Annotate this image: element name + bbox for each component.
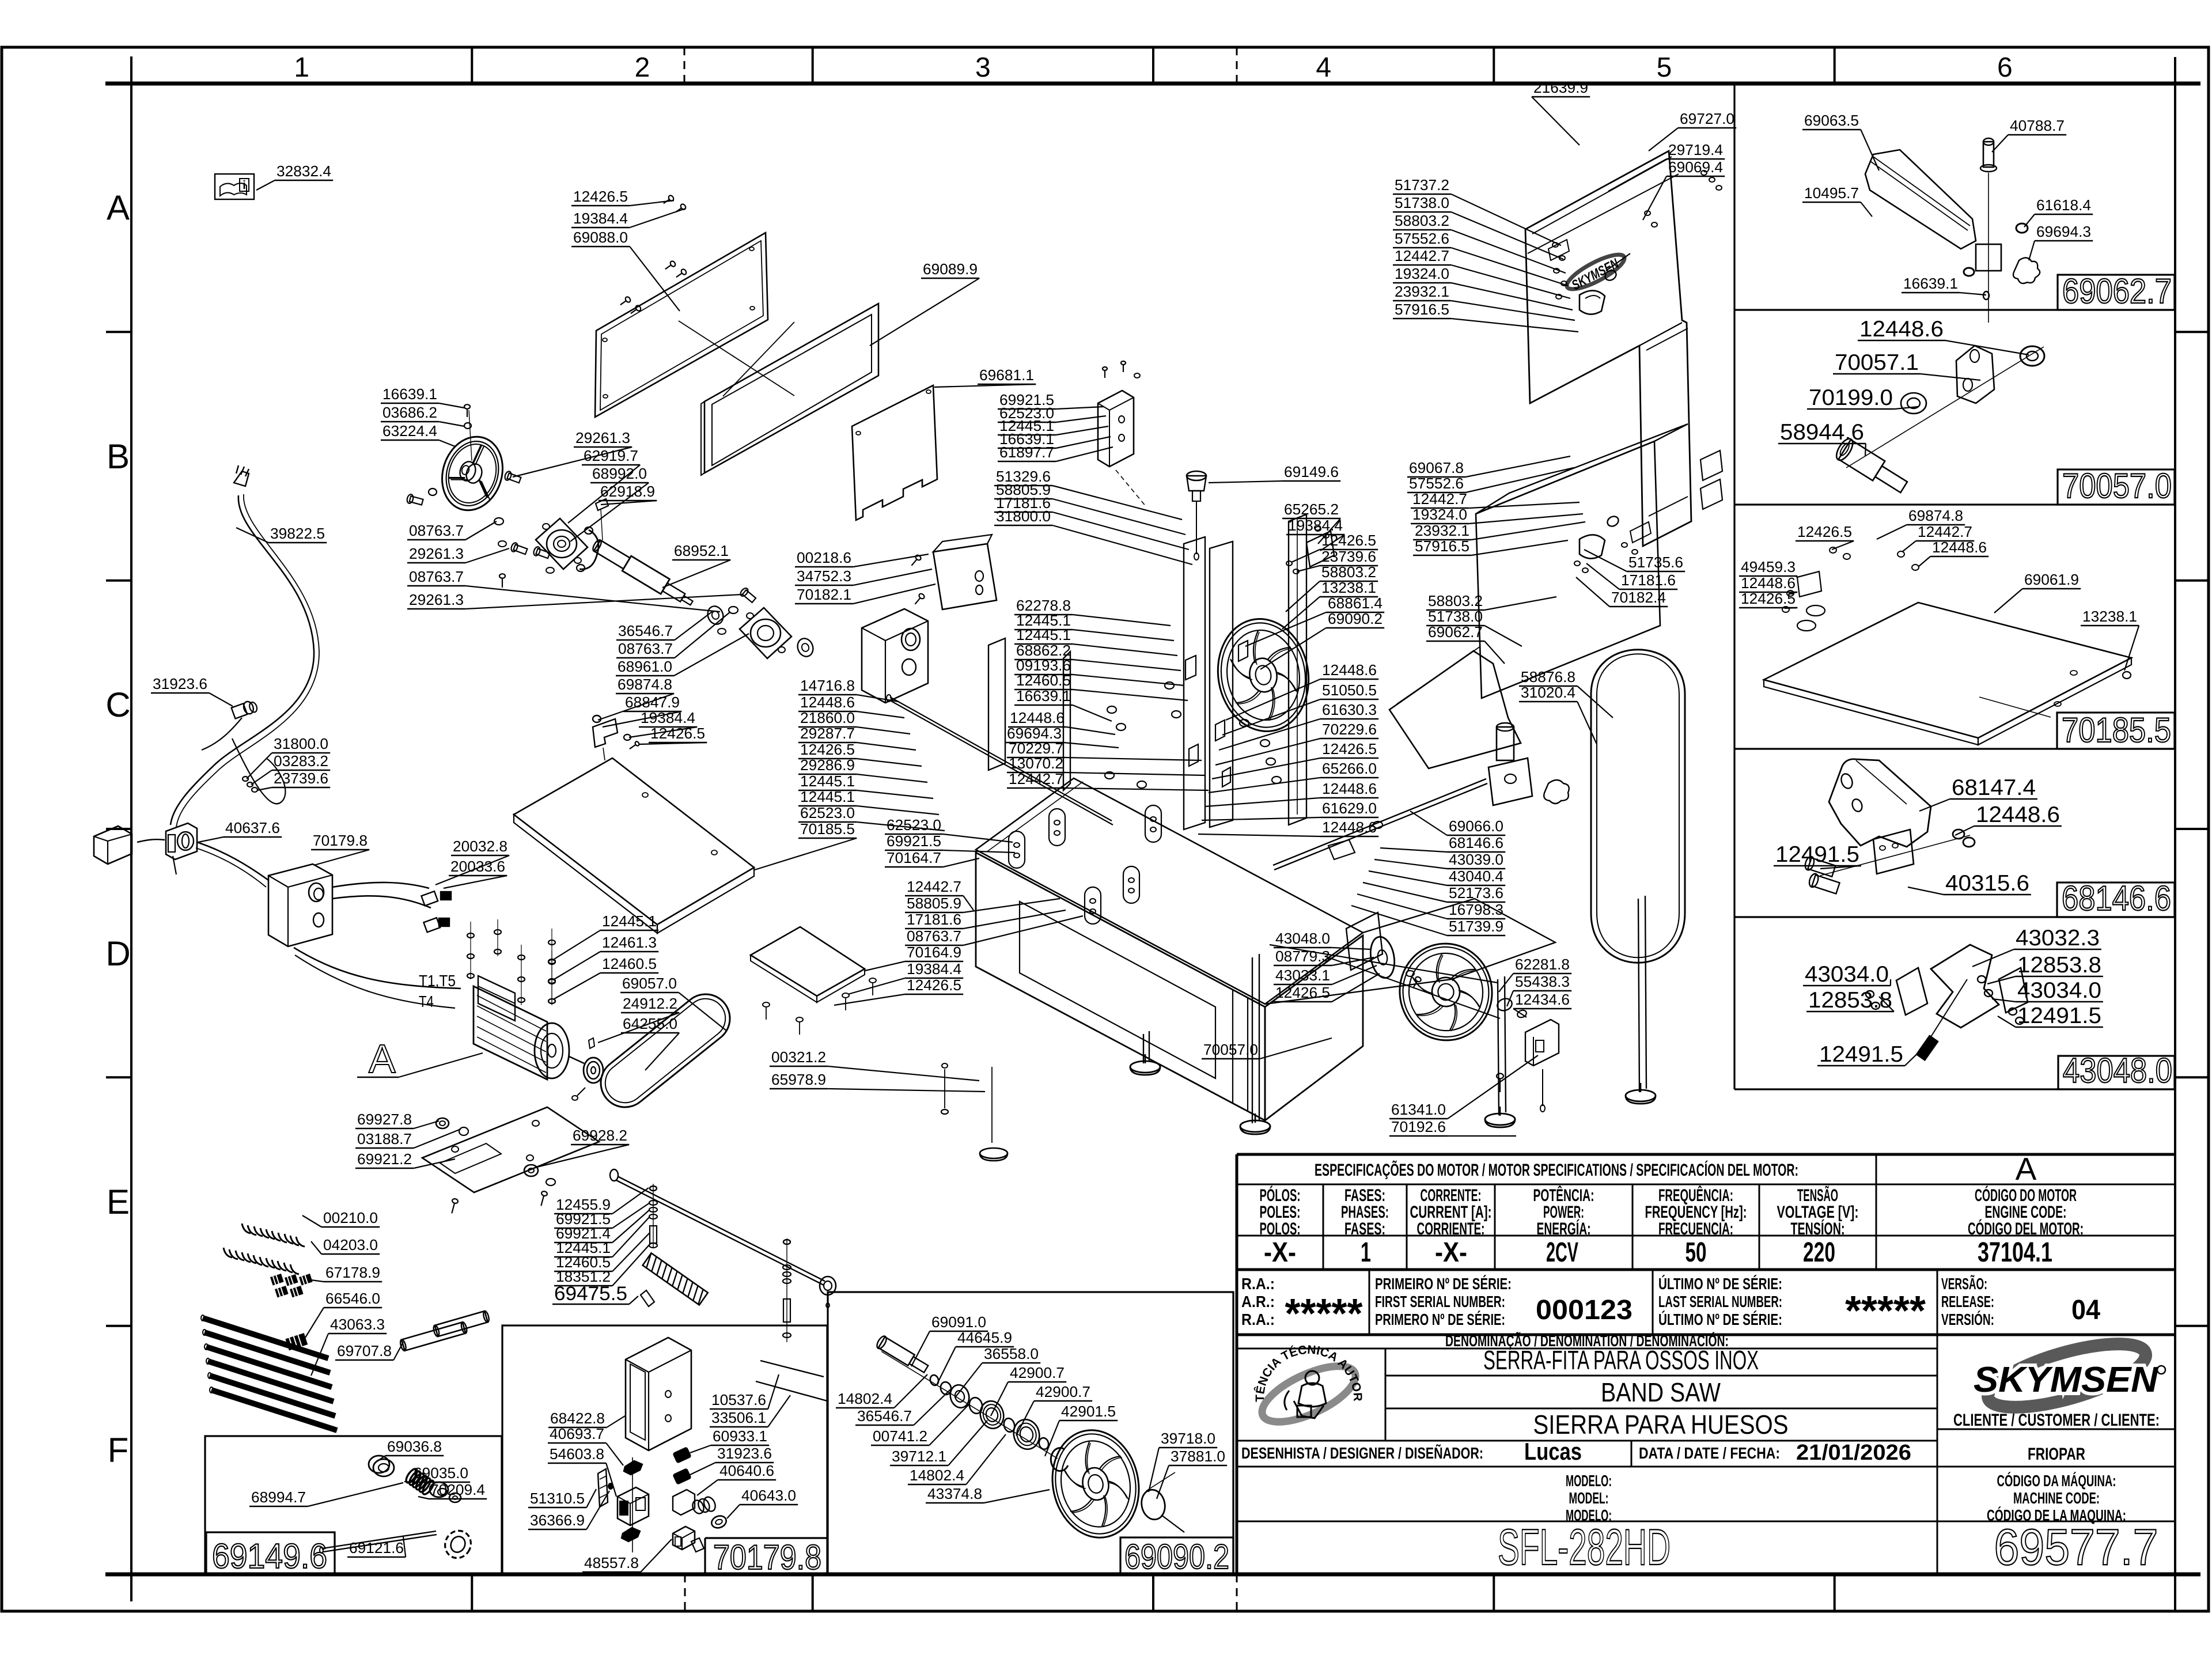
svg-text:12442.7: 12442.7 [1918,523,1972,540]
svg-text:4: 4 [1316,52,1331,83]
svg-text:70199.0: 70199.0 [1809,385,1893,410]
svg-text:51738.0: 51738.0 [1395,194,1449,211]
svg-text:69057.0: 69057.0 [622,975,677,992]
svg-text:-X-: -X- [1264,1237,1296,1268]
svg-text:21/01/2026: 21/01/2026 [1796,1441,1911,1465]
svg-text:MACHINE CODE:: MACHINE CODE: [2013,1489,2100,1507]
svg-text:12426.5: 12426.5 [1275,984,1330,1001]
svg-text:VERSÃO:: VERSÃO: [1941,1275,1987,1293]
svg-text:POTÊNCIA:: POTÊNCIA: [1533,1185,1594,1205]
svg-text:39718.0: 39718.0 [1161,1430,1215,1447]
svg-text:69089.9: 69089.9 [923,260,978,278]
svg-text:61341.0: 61341.0 [1391,1101,1446,1118]
svg-text:F: F [108,1431,129,1469]
svg-text:51310.5: 51310.5 [530,1490,585,1507]
svg-text:12461.3: 12461.3 [602,934,657,951]
svg-text:58805.9: 58805.9 [907,895,961,912]
svg-text:29286.9: 29286.9 [800,756,855,774]
svg-text:42900.7: 42900.7 [1036,1383,1090,1400]
svg-text:69921.5: 69921.5 [887,832,941,850]
svg-text:70185.5: 70185.5 [2062,711,2171,749]
svg-text:A: A [107,188,130,227]
svg-text:58876.8: 58876.8 [1521,668,1575,685]
svg-text:63224.4: 63224.4 [382,422,437,440]
svg-text:SFL-282HD: SFL-282HD [1498,1518,1671,1575]
svg-text:12448.6: 12448.6 [1932,539,1987,556]
svg-text:40693.7: 40693.7 [550,1425,604,1442]
svg-text:3: 3 [975,52,991,83]
svg-text:31800.0: 31800.0 [996,507,1051,525]
svg-text:12448.6: 12448.6 [1976,802,2060,827]
svg-text:68146.6: 68146.6 [1449,834,1503,851]
svg-text:37104.1: 37104.1 [1978,1237,2052,1268]
svg-text:65978.9: 65978.9 [771,1071,826,1088]
svg-text:69061.9: 69061.9 [2024,571,2079,588]
svg-text:CLIENTE / CUSTOMER / CLIENTE:: CLIENTE / CUSTOMER / CLIENTE: [1953,1411,2160,1430]
svg-text:61629.0: 61629.0 [1322,800,1377,817]
svg-text:40643.0: 40643.0 [741,1487,796,1504]
svg-text:SERRA-FITA PARA OSSOS INOX: SERRA-FITA PARA OSSOS INOX [1483,1345,1759,1375]
svg-text:70192.6: 70192.6 [1391,1118,1446,1135]
svg-text:12853.8: 12853.8 [1808,988,1892,1013]
svg-text:43048.0: 43048.0 [1275,930,1330,947]
svg-text:70179.8: 70179.8 [713,1538,821,1577]
svg-text:*****: ***** [1845,1288,1926,1334]
svg-text:29287.7: 29287.7 [800,725,855,742]
svg-text:23739.6: 23739.6 [1321,548,1376,565]
svg-text:1: 1 [294,52,309,83]
svg-text:40788.7: 40788.7 [2010,117,2065,134]
svg-text:04203.0: 04203.0 [323,1236,378,1253]
svg-text:36546.7: 36546.7 [618,622,673,639]
svg-text:FRIOPAR: FRIOPAR [2028,1445,2085,1464]
svg-text:48557.8: 48557.8 [584,1554,639,1571]
svg-text:08763.7: 08763.7 [409,522,464,539]
svg-text:19384.4: 19384.4 [573,210,628,227]
svg-text:57552.6: 57552.6 [1395,230,1449,247]
svg-text:32832.4: 32832.4 [276,162,331,180]
svg-text:55438.3: 55438.3 [1515,973,1570,990]
svg-text:14716.8: 14716.8 [800,677,855,694]
svg-text:39712.1: 39712.1 [892,1448,946,1465]
svg-text:70057.0: 70057.0 [1203,1041,1258,1058]
svg-text:62523.0: 62523.0 [887,816,941,834]
svg-text:B: B [107,437,130,476]
svg-text:20033.6: 20033.6 [450,858,505,875]
svg-text:43040.4: 43040.4 [1449,868,1503,885]
svg-text:14802.4: 14802.4 [910,1467,964,1484]
svg-text:31923.6: 31923.6 [153,675,207,692]
svg-text:000123: 000123 [1536,1295,1633,1325]
svg-text:40315.6: 40315.6 [1945,871,2029,896]
svg-text:16639.1: 16639.1 [1016,687,1071,704]
svg-text:1: 1 [1361,1237,1371,1268]
svg-text:12442.7: 12442.7 [907,878,961,895]
svg-text:23932.1: 23932.1 [1415,522,1469,539]
svg-text:69874.8: 69874.8 [1908,507,1963,524]
svg-text:69475.5: 69475.5 [554,1283,627,1305]
svg-text:00210.0: 00210.0 [323,1209,378,1226]
svg-text:68422.8: 68422.8 [550,1410,605,1427]
svg-text:12448.6: 12448.6 [1741,574,1796,592]
svg-text:08763.7: 08763.7 [907,927,961,945]
svg-text:08779.3: 08779.3 [1275,948,1330,965]
svg-text:10537.6: 10537.6 [711,1391,766,1408]
svg-text:33506.1: 33506.1 [711,1409,766,1426]
svg-text:51737.2: 51737.2 [1395,176,1449,194]
svg-text:69874.8: 69874.8 [618,676,672,693]
svg-text:69681.1: 69681.1 [979,366,1034,384]
svg-text:62919.7: 62919.7 [584,447,638,464]
svg-text:VERSIÓN:: VERSIÓN: [1941,1310,1994,1328]
svg-text:29261.3: 29261.3 [409,591,464,608]
svg-text:FREQUÊNCIA:: FREQUÊNCIA: [1658,1185,1733,1205]
svg-text:PÓLOS:: PÓLOS: [1260,1185,1301,1205]
svg-text:70057.0: 70057.0 [2062,467,2172,505]
svg-text:61618.4: 61618.4 [2036,196,2091,214]
svg-text:31923.6: 31923.6 [717,1445,772,1462]
svg-text:69707.8: 69707.8 [337,1342,392,1359]
svg-text:68861.4: 68861.4 [1328,594,1382,612]
svg-text:DATA / DATE / FECHA:: DATA / DATE / FECHA: [1639,1444,1780,1462]
svg-text:43034.0: 43034.0 [2017,978,2101,1003]
svg-text:ÚLTIMO Nº DE SÉRIE:: ÚLTIMO Nº DE SÉRIE: [1658,1310,1782,1328]
svg-text:*****: ***** [1285,1291,1363,1337]
svg-text:LAST SERIAL NUMBER:: LAST SERIAL NUMBER: [1658,1293,1782,1310]
svg-text:69121.6: 69121.6 [349,1539,404,1556]
svg-text:69577.7: 69577.7 [1994,1518,2158,1575]
svg-text:67178.9: 67178.9 [325,1264,380,1281]
svg-text:03283.2: 03283.2 [274,752,328,770]
svg-text:12445.1: 12445.1 [1016,626,1071,643]
svg-text:12491.5: 12491.5 [1775,842,1859,867]
svg-text:12426.5: 12426.5 [1797,523,1852,540]
svg-text:12448.6: 12448.6 [800,694,855,711]
svg-text:CÓDIGO DEL MOTOR:: CÓDIGO DEL MOTOR: [1968,1219,2084,1238]
svg-text:08763.7: 08763.7 [409,568,464,585]
svg-text:69727.0: 69727.0 [1680,110,1734,127]
svg-text:DESENHISTA / DESIGNER / DISEÑA: DESENHISTA / DESIGNER / DISEÑADOR: [1241,1444,1483,1462]
svg-text:54603.8: 54603.8 [550,1445,604,1463]
svg-text:12445.1: 12445.1 [800,772,855,790]
svg-text:58803.2: 58803.2 [1321,563,1376,581]
svg-text:49459.3: 49459.3 [1741,558,1796,575]
svg-text:ESPECIFICAÇÕES DO MOTOR / MOTO: ESPECIFICAÇÕES DO MOTOR / MOTOR SPECIFIC… [1315,1160,1798,1180]
svg-text:61630.3: 61630.3 [1322,701,1377,718]
svg-text:20032.8: 20032.8 [453,838,507,855]
svg-text:57552.6: 57552.6 [1409,475,1464,492]
svg-text:69694.3: 69694.3 [2036,223,2091,240]
svg-text:00741.2: 00741.2 [873,1427,927,1445]
svg-text:68994.7: 68994.7 [251,1488,306,1506]
svg-text:12460.5: 12460.5 [1016,672,1071,689]
svg-text:70179.8: 70179.8 [313,832,368,849]
svg-text:CORRIENTE:: CORRIENTE: [1417,1219,1485,1238]
svg-text:12442.7: 12442.7 [1395,247,1449,264]
svg-text:70182.4: 70182.4 [1611,589,1666,606]
svg-text:12491.5: 12491.5 [1819,1042,1903,1067]
svg-text:12448.6: 12448.6 [1322,661,1377,679]
svg-text:69928.2: 69928.2 [573,1127,627,1144]
svg-text:i: i [243,179,246,192]
svg-text:29261.3: 29261.3 [575,429,630,446]
svg-text:RELEASE:: RELEASE: [1941,1293,1994,1310]
svg-text:D: D [105,934,130,973]
svg-text:37881.0: 37881.0 [1171,1448,1225,1465]
svg-text:08763.7: 08763.7 [618,640,673,657]
svg-text:5: 5 [1657,52,1672,83]
svg-text:43374.8: 43374.8 [927,1485,982,1502]
svg-text:12434.6: 12434.6 [1515,991,1570,1008]
svg-text:17181.6: 17181.6 [1621,571,1676,589]
svg-text:12426.5: 12426.5 [907,976,961,994]
svg-text:SKYMSEN: SKYMSEN [1974,1360,2158,1400]
svg-text:FASES:: FASES: [1344,1219,1385,1238]
svg-text:10495.7: 10495.7 [1804,184,1859,202]
svg-text:ENERGÍA:: ENERGÍA: [1537,1219,1591,1238]
svg-text:ÚLTIMO Nº DE SÉRIE:: ÚLTIMO Nº DE SÉRIE: [1658,1275,1782,1293]
svg-text:36366.9: 36366.9 [530,1512,585,1529]
svg-text:69088.0: 69088.0 [573,229,628,246]
svg-text:69066.0: 69066.0 [1449,817,1503,835]
svg-text:21639.9: 21639.9 [1533,79,1588,96]
svg-text:13070.2: 13070.2 [1009,755,1063,772]
svg-text:FRECUENCIA:: FRECUENCIA: [1658,1219,1733,1238]
svg-text:69062.7: 69062.7 [2062,272,2172,310]
svg-text:69067.8: 69067.8 [1409,459,1464,476]
svg-text:31020.4: 31020.4 [1521,684,1575,701]
svg-text:70185.5: 70185.5 [800,820,855,838]
svg-text:43063.3: 43063.3 [330,1316,385,1333]
svg-text:12426.5: 12426.5 [650,725,705,742]
svg-text:12426.5: 12426.5 [1322,740,1377,757]
svg-text:65265.2: 65265.2 [1284,501,1339,518]
svg-text:19324.0: 19324.0 [1412,506,1467,523]
svg-text:69149.6: 69149.6 [212,1537,327,1575]
svg-text:69090.2: 69090.2 [1124,1537,1229,1576]
svg-text:19324.0: 19324.0 [1395,265,1449,282]
svg-text:12426.5: 12426.5 [573,188,628,205]
svg-text:51738.0: 51738.0 [1428,608,1483,625]
svg-text:69091.0: 69091.0 [931,1313,986,1331]
svg-text:21860.0: 21860.0 [800,709,855,726]
svg-text:69063.5: 69063.5 [1804,112,1859,129]
svg-text:69149.6: 69149.6 [1284,463,1339,480]
svg-text:04: 04 [2071,1295,2100,1325]
svg-text:61897.7: 61897.7 [999,444,1054,461]
svg-text:14802.4: 14802.4 [838,1390,892,1407]
svg-text:A: A [369,1036,396,1081]
svg-text:-X-: -X- [1435,1237,1467,1268]
svg-text:24912.2: 24912.2 [623,995,677,1012]
svg-text:57916.5: 57916.5 [1395,301,1449,318]
svg-text:39822.5: 39822.5 [270,525,325,542]
svg-text:58944.6: 58944.6 [1780,420,1864,445]
svg-text:12426.5: 12426.5 [1741,590,1796,607]
svg-text:42900.7: 42900.7 [1010,1364,1065,1381]
svg-text:FIRST SERIAL NUMBER:: FIRST SERIAL NUMBER: [1375,1293,1505,1310]
svg-text:68147.4: 68147.4 [1952,775,2036,800]
svg-text:51050.5: 51050.5 [1322,681,1377,699]
svg-text:68146.6: 68146.6 [2062,879,2171,918]
svg-text:12442.7: 12442.7 [1009,770,1063,787]
svg-text:03686.2: 03686.2 [382,404,437,421]
svg-text:00218.6: 00218.6 [797,549,851,566]
svg-text:SIERRA PARA HUESOS: SIERRA PARA HUESOS [1533,1410,1789,1440]
svg-text:66546.0: 66546.0 [325,1290,380,1307]
svg-text:43032.3: 43032.3 [2016,926,2100,950]
svg-text:C: C [105,685,130,724]
svg-text:42901.5: 42901.5 [1061,1403,1116,1420]
svg-text:T4: T4 [419,993,434,1010]
svg-text:68961.0: 68961.0 [618,658,672,675]
svg-text:12445.1: 12445.1 [602,912,657,930]
svg-text:69035.0: 69035.0 [414,1464,468,1482]
svg-text:12448.6: 12448.6 [1322,780,1377,797]
svg-text:12853.8: 12853.8 [2017,953,2101,978]
svg-text:70182.1: 70182.1 [797,586,851,603]
svg-text:52173.6: 52173.6 [1449,884,1503,902]
svg-text:T1,T5: T1,T5 [419,972,456,990]
svg-text:65266.0: 65266.0 [1322,760,1377,777]
svg-text:00321.2: 00321.2 [771,1048,826,1066]
svg-text:50: 50 [1685,1237,1707,1268]
svg-text:62281.8: 62281.8 [1515,956,1570,973]
svg-text:34752.3: 34752.3 [797,567,851,585]
svg-text:68952.1: 68952.1 [674,542,729,559]
svg-text:12460.5: 12460.5 [602,955,657,972]
svg-text:PRIMEIRO Nº DE SÉRIE:: PRIMEIRO Nº DE SÉRIE: [1375,1275,1512,1293]
svg-text:43034.0: 43034.0 [1805,962,1889,987]
svg-text:MODEL:: MODEL: [1569,1489,1609,1507]
svg-text:BAND SAW: BAND SAW [1601,1377,1721,1407]
svg-text:220: 220 [1803,1237,1835,1268]
svg-text:TENSÍON:: TENSÍON: [1791,1219,1845,1238]
svg-text:12442.7: 12442.7 [1412,490,1467,507]
svg-text:69090.2: 69090.2 [1328,610,1382,627]
svg-text:17181.6: 17181.6 [907,911,961,928]
svg-text:CÓDIGO DO MOTOR: CÓDIGO DO MOTOR [1975,1185,2077,1205]
svg-text:PRIMERO Nº DE SÉRIE:: PRIMERO Nº DE SÉRIE: [1375,1310,1505,1328]
svg-text:36546.7: 36546.7 [857,1407,912,1425]
svg-text:70164.7: 70164.7 [887,849,941,866]
svg-text:R.A.:: R.A.: [1241,1275,1275,1293]
svg-text:R.A.:: R.A.: [1241,1310,1275,1328]
svg-text:6: 6 [1997,52,2013,83]
svg-text:58803.2: 58803.2 [1428,592,1483,609]
svg-text:70057.1: 70057.1 [1835,350,1919,375]
svg-text:70209.4: 70209.4 [430,1481,485,1498]
svg-text:51739.9: 51739.9 [1449,918,1503,935]
svg-text:69036.8: 69036.8 [387,1438,442,1455]
svg-text:58803.2: 58803.2 [1395,212,1449,229]
svg-text:70164.9: 70164.9 [907,944,961,961]
svg-text:16798.3: 16798.3 [1449,901,1503,918]
svg-text:43048.0: 43048.0 [2063,1051,2172,1090]
svg-text:12491.5: 12491.5 [2017,1003,2101,1028]
svg-text:44645.9: 44645.9 [957,1329,1012,1346]
svg-text:62523.0: 62523.0 [800,804,855,821]
svg-text:12445.1: 12445.1 [800,788,855,805]
svg-text:E: E [107,1183,130,1221]
svg-text:69062.7: 69062.7 [1428,623,1483,641]
svg-text:03188.7: 03188.7 [357,1130,412,1147]
svg-text:16639.1: 16639.1 [1903,275,1958,292]
svg-text:40637.6: 40637.6 [225,819,280,836]
svg-text:64255.0: 64255.0 [623,1015,677,1032]
svg-text:31800.0: 31800.0 [274,735,328,752]
svg-text:23932.1: 23932.1 [1395,283,1449,300]
svg-text:62918.9: 62918.9 [600,483,655,500]
svg-text:69069.4: 69069.4 [1668,158,1723,176]
svg-text:19384.4: 19384.4 [641,709,695,726]
svg-text:TENSÃO: TENSÃO [1797,1185,1838,1205]
svg-text:12426.5: 12426.5 [800,741,855,758]
svg-text:43033.1: 43033.1 [1275,967,1330,984]
svg-text:29719.4: 29719.4 [1668,141,1723,158]
svg-text:19384.4: 19384.4 [907,960,961,978]
svg-text:A: A [2016,1151,2037,1187]
svg-text:12448.6: 12448.6 [1859,317,1944,342]
svg-text:70229.6: 70229.6 [1322,721,1377,738]
svg-text:68992.0: 68992.0 [592,465,647,482]
svg-text:60933.1: 60933.1 [713,1427,767,1445]
svg-text:13238.1: 13238.1 [2082,608,2137,625]
svg-text:69927.8: 69927.8 [357,1111,412,1128]
svg-text:Lucas: Lucas [1524,1438,1582,1465]
svg-text:23739.6: 23739.6 [274,770,328,787]
svg-text:57916.5: 57916.5 [1415,537,1469,555]
svg-text:68847.9: 68847.9 [625,694,680,711]
svg-text:51735.6: 51735.6 [1628,554,1683,571]
svg-text:40640.6: 40640.6 [719,1462,774,1479]
svg-text:43039.0: 43039.0 [1449,851,1503,868]
svg-text:A.R.:: A.R.: [1241,1293,1275,1310]
svg-text:36558.0: 36558.0 [984,1345,1039,1362]
svg-text:13238.1: 13238.1 [1321,579,1376,596]
svg-text:MODELO:: MODELO: [1566,1472,1612,1490]
svg-text:12426.5: 12426.5 [1321,532,1376,549]
svg-text:2: 2 [635,52,650,83]
svg-text:12448.6: 12448.6 [1322,819,1377,836]
svg-text:29261.3: 29261.3 [409,545,464,562]
svg-text:16639.1: 16639.1 [382,385,437,403]
svg-text:POLOS:: POLOS: [1260,1219,1301,1238]
svg-text:69921.2: 69921.2 [357,1150,412,1168]
svg-text:2CV: 2CV [1546,1237,1578,1268]
svg-text:CÓDIGO DA MÁQUINA:: CÓDIGO DA MÁQUINA: [1997,1472,2116,1490]
svg-text:12448.6: 12448.6 [1010,709,1065,726]
